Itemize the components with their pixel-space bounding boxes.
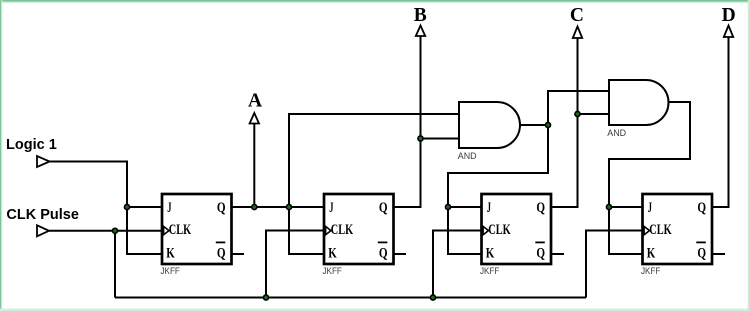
svg-text:Q: Q (697, 200, 706, 216)
svg-text:J: J (329, 200, 333, 216)
frame border right (748, 0, 750, 311)
arrow A (250, 113, 259, 124)
svg-text:Q: Q (697, 246, 706, 262)
wire Qbar4 stub (713, 253, 726, 255)
wire Qbar1 stub (232, 253, 245, 255)
svg-text:Q: Q (379, 200, 388, 216)
frame border top (0, 0, 750, 2)
node bus FF3 (430, 295, 435, 300)
wire clock bus drop (114, 231, 116, 298)
wire AND1 out up to AND2 top input (548, 91, 609, 125)
wire Q3 to C riser (552, 38, 578, 207)
node AND1 out tap (545, 122, 550, 127)
svg-text:C: C (570, 5, 584, 26)
JK flip-flop FF1 (161, 194, 232, 276)
wire Qbar2 stub (394, 253, 407, 255)
svg-text:AND: AND (458, 151, 477, 161)
svg-text:JKFF: JKFF (480, 266, 500, 276)
arrow D (724, 26, 733, 38)
JK flip-flop FF3 (480, 194, 551, 276)
svg-text:Q: Q (217, 246, 226, 262)
wire Q1 to J2 (232, 206, 325, 208)
wire CLK riser FF2 (266, 231, 324, 298)
svg-text:J: J (487, 200, 491, 216)
node J3/K3 tie (445, 204, 450, 209)
wire Qbar3 stub (552, 253, 565, 255)
frame border left (0, 0, 1, 311)
node QC tap (575, 111, 580, 116)
svg-text:CLK: CLK (649, 222, 672, 238)
wire AND1 out down to J3/K3 (448, 125, 548, 254)
svg-text:J: J (648, 200, 652, 216)
svg-text:JKFF: JKFF (323, 266, 343, 276)
input buffer Logic 1 (37, 156, 50, 167)
svg-text:K: K (486, 246, 495, 262)
frame border bottom (0, 309, 750, 311)
svg-text:K: K (166, 246, 175, 262)
wire CLK riser FF4 (586, 231, 643, 298)
svg-text:Q: Q (536, 200, 545, 216)
wire Q4 to D riser (713, 37, 729, 207)
node J1/K1 tie (124, 204, 129, 209)
svg-text:CLK Pulse: CLK Pulse (6, 207, 79, 223)
arrow B (416, 26, 425, 37)
svg-text:CLK: CLK (331, 222, 354, 238)
svg-text:AND: AND (607, 128, 626, 138)
wire CLK Pulse to FF1 CLK (49, 230, 162, 232)
wire J1 branch (127, 206, 162, 208)
svg-text:Q: Q (536, 246, 545, 262)
svg-text:Logic 1: Logic 1 (6, 137, 57, 153)
wire QA riser to AND1 top input (289, 114, 459, 207)
svg-text:JKFF: JKFF (161, 266, 181, 276)
AND gate U2 (QA.QB.QC) (609, 80, 669, 125)
wire J4 branch (609, 206, 643, 208)
node A tap (252, 204, 257, 209)
JK flip-flop FF2 (323, 194, 394, 276)
svg-text:CLK: CLK (488, 222, 511, 238)
wire QC to AND2 bottom input (578, 113, 610, 115)
node CLK bus tap (112, 228, 117, 233)
svg-text:J: J (167, 200, 171, 216)
input buffer CLK Pulse (37, 225, 49, 236)
node junction dots (112, 111, 611, 300)
AND gate U1 (QA.QB) (459, 102, 520, 148)
JK flip-flop FF4 (641, 194, 712, 276)
svg-text:D: D (722, 5, 736, 26)
wire A riser (253, 124, 255, 208)
node QA tap (286, 204, 291, 209)
wire QA branch to K2 (289, 207, 324, 254)
svg-text:K: K (647, 246, 656, 262)
wire Logic1 to J1/K1 vertical (50, 162, 162, 255)
svg-text:K: K (328, 246, 337, 262)
wire QB to AND1 bottom input (421, 138, 460, 140)
wire AND1 output (520, 124, 548, 126)
svg-text:Q: Q (217, 200, 226, 216)
wire AND2 output to J4/K4 (609, 102, 690, 254)
svg-text:JKFF: JKFF (641, 266, 661, 276)
svg-text:B: B (414, 5, 427, 26)
svg-text:Q: Q (379, 246, 388, 262)
wire J3 branch (448, 206, 482, 208)
node QB tap (418, 136, 423, 141)
wire CLK riser FF3 (433, 231, 482, 298)
node bus FF2 (263, 295, 268, 300)
wire Q2 to B riser (394, 36, 421, 207)
svg-text:A: A (248, 91, 262, 112)
wire clock bus (115, 297, 586, 299)
node J4/K4 tie (606, 204, 611, 209)
svg-text:CLK: CLK (169, 222, 192, 238)
arrow C (573, 27, 582, 39)
